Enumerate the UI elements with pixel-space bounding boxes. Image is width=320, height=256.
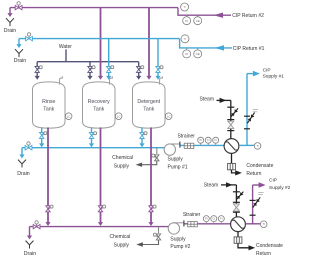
svg-text:CIP Return #1: CIP Return #1 [233,46,265,52]
angle valve riser #1 [247,113,254,124]
drain funnel 4 [26,241,34,249]
svg-text:TI: TI [184,37,187,41]
note riser #2 [258,191,263,193]
instrument PI supply #2 [203,216,209,222]
svg-text:Supply: Supply [114,164,130,170]
svg-text:Chemical: Chemical [112,155,133,161]
wire purple suction header [30,226,169,228]
svg-text:Return: Return [246,171,261,177]
valve purple outlet V-P3 [149,205,156,212]
angle valve riser #2 [253,197,260,207]
wire chemical supply #1 [140,161,157,165]
arrow purple outlet 2 [98,222,103,226]
arrow condensate return #2 [249,245,256,250]
steam trap #2 [234,237,242,243]
valve drain CV1 [26,33,33,41]
flange pump #2 discharge [183,220,185,226]
wire cyan outlet tank 1 [41,127,43,132]
wire chemical supply #2 [141,240,159,245]
wire purple drop to recovery tank [100,8,102,77]
svg-text:FI: FI [185,52,188,56]
arrow CIP supply #2 [259,182,266,188]
wire purple outlet tank 1 [47,127,49,205]
pump P2 supply pump #2 [168,223,184,234]
instrument TI supply #1 [254,143,261,150]
svg-text:FI: FI [215,138,218,142]
valve water inlet V-W2 [88,66,95,73]
instrument TI return #2 [181,3,189,11]
flange pump #1 discharge [179,142,181,148]
wire steam #2 drop [235,185,237,217]
svg-text:CIP Return #2: CIP Return #2 [232,13,264,19]
pump P1 supply pump #1 [164,144,180,155]
wire CIP return #2 header [10,7,178,9]
tank T3 Detergent Tank [133,82,166,128]
svg-text:Drain: Drain [17,171,30,177]
arrow water into tank 3 [136,76,141,80]
valve cyan inlet V-C1 [107,66,114,73]
wire condensate #1 [231,153,233,163]
flange steam #2 a [233,191,240,193]
svg-text:Detergent: Detergent [137,99,160,105]
valve drain PV1 [15,2,22,10]
wire purple drop to detergent tank [148,8,150,77]
svg-text:Rinse: Rinse [42,99,55,105]
wire water header [37,61,139,63]
isolation valve steam #1 [231,108,238,117]
wire drain drop cyan [18,39,20,45]
heat exchanger HX1 [224,139,239,154]
wire CIP supply #2 connector [253,184,259,186]
control valve steam #2 [233,204,239,211]
arrow cyan outlet 2 [89,143,94,147]
drain funnel 2 [15,49,23,57]
instrument TI supply #2 [260,221,267,228]
arrow to drain [16,44,21,48]
svg-text:Recovery: Recovery [88,99,110,105]
arrow cyan outlet 1 [39,143,44,147]
svg-text:Steam: Steam [200,96,214,102]
wire CIP supply #1 riser [246,74,248,146]
instrument FI return #2 [183,17,191,25]
svg-text:CE: CE [196,19,200,23]
arrow cyan into tank 2 [106,76,111,80]
svg-text:CI: CI [213,217,216,221]
arrow purple outlet 3 [148,222,153,226]
arrow to drain [19,155,24,159]
svg-text:Chemical: Chemical [109,234,130,240]
wire cyan outlet tank 2 [91,127,93,132]
tank T2 Recovery Tank [83,82,116,128]
wire HX2 outlet [245,223,260,225]
valve purple outlet V-P1 [46,205,53,212]
strainer S1 [184,143,194,148]
flange steam #2 c [233,211,240,213]
wire cyan drop 1 [108,39,110,67]
wire to CIP return #1 connector [180,39,232,48]
flange riser #2 lower [250,214,256,216]
valve drain CV2 [25,142,32,150]
isolation valve steam #2 [236,192,243,200]
svg-text:Return: Return [256,251,271,256]
svg-text:CIP: CIP [263,68,271,74]
svg-text:Condensate: Condensate [256,243,283,249]
arrow CIP return #2 [214,13,224,18]
svg-text:CIP: CIP [269,178,277,184]
arrow purple outlet 1 [45,222,50,226]
svg-text:Supply #2: Supply #2 [269,185,291,191]
heat exchanger HX2 [231,217,246,232]
svg-text:CI: CI [207,138,210,142]
wire CIP supply #2 riser [252,185,254,224]
arrow water into tank 1 [35,76,40,80]
control valve steam #1 [228,121,234,128]
strainer S2 [188,222,198,227]
wire drain drop [29,227,31,236]
flange steam #1 a [227,106,234,108]
instrument PI supply #1 [198,137,204,143]
wire steam #1 drop [230,100,232,138]
svg-text:Tank: Tank [93,107,104,113]
svg-text:TI: TI [183,5,186,9]
svg-text:Supply: Supply [114,243,130,249]
svg-text:Supply: Supply [170,236,186,242]
svg-text:Supply #1: Supply #1 [263,73,285,79]
wire condensate #2 [237,232,239,237]
valve cyan inlet V-C2 [156,66,163,73]
wire water drop 3 [138,62,140,67]
svg-text:Condensate: Condensate [246,163,273,169]
wire water drop 2 [89,62,91,67]
wire purple outlet tank 2 [100,127,102,205]
svg-text:FI: FI [185,19,188,23]
tank T1 Rinse Tank [33,82,66,128]
wire drain drop [21,148,23,155]
arrow steam #1 [220,98,227,103]
wire to CIP return #2 connector [178,8,231,16]
wire steam #1 [217,99,231,101]
svg-text:Supply: Supply [168,157,184,163]
svg-text:TI: TI [263,222,266,226]
valve cyan outlet V-O3 [140,132,147,139]
wire pump #2 discharge [184,223,230,225]
svg-text:Drain: Drain [4,28,17,34]
wire drain drop purple [9,8,11,14]
arrow CIP supply #1 [253,71,260,77]
svg-text:Strainer: Strainer [177,133,195,139]
arrow purple into recovery tank [98,76,103,80]
arrow water into tank 2 [87,76,92,80]
valve water inlet V-W3 [137,66,144,73]
wire condensate #2 out [238,243,250,248]
arrow chemical supply #2 [136,242,143,246]
wire chemical supply #1 stub [156,148,158,154]
valve chemical supply #1 [152,154,159,161]
flange riser #1 upper [244,128,250,130]
svg-text:Tank: Tank [143,107,154,113]
valve chemical supply #2 [153,233,160,240]
instrument CE return #1 [194,50,202,58]
flange steam #1 b [227,119,234,121]
svg-text:CE: CE [196,52,200,56]
instrument FI supply #2 [218,216,224,222]
instrument CI supply #1 [205,137,211,143]
drain funnel 1 [6,18,14,26]
wire cyan drop 2 [157,39,159,67]
drain funnel 3 [18,160,26,168]
wire water drop 1 [36,62,38,67]
svg-text:PI: PI [205,217,208,221]
arrow cyan outlet 3 [139,143,144,147]
svg-text:PI: PI [199,138,202,142]
valve water inlet V-W1 [35,66,42,73]
flange riser #2 upper [250,199,256,201]
arrow chemical supply #1 [136,163,143,167]
arrow cyan into tank 3 [155,76,160,80]
wire CIP supply #1 connector [247,73,253,75]
arrow purple into detergent tank [146,76,151,80]
svg-text:TI: TI [256,144,259,148]
svg-text:Water: Water [59,44,72,50]
instrument CE return #2 [194,17,202,25]
wire cyan suction header [22,147,164,149]
arrow steam #2 [226,182,233,187]
flange steam #2 b [233,201,240,203]
svg-text:Steam: Steam [204,183,218,189]
arrow to drain [27,236,32,240]
arrow CIP return #1 [215,45,225,50]
valve purple outlet V-P2 [98,205,105,212]
wire cyan outlet tank 3 [141,127,143,132]
wire water supply stub [65,49,67,61]
instrument FI supply #1 [213,137,219,143]
svg-text:Pump #2: Pump #2 [170,244,190,250]
wire purple outlet tank 3 [150,127,152,205]
wire HX1 outlet [239,144,255,146]
arrow to drain [7,13,12,17]
flange steam #1 c [227,130,234,132]
wire condensate #1 out [232,170,237,173]
wire CIP return #1 header [19,38,180,40]
arrow condensate return #1 [235,170,242,175]
svg-text:Drain: Drain [14,58,27,64]
valve cyan outlet V-O2 [89,132,96,139]
wire pump #1 discharge [180,144,224,146]
instrument CI supply #2 [211,216,217,222]
svg-text:Tank: Tank [43,107,54,113]
wire chemical supply #2 stub [158,227,160,234]
svg-text:Strainer: Strainer [183,212,201,218]
steam trap #1 [228,163,236,169]
flange riser #1 lower [244,115,250,117]
instrument TI return #1 [181,35,189,43]
note riser #1 [253,109,258,111]
svg-text:FI: FI [220,217,223,221]
valve cyan outlet V-O1 [40,132,47,139]
svg-text:Drain: Drain [24,251,37,256]
valve drain PV2 [33,221,40,229]
wire steam #2 [221,184,236,186]
instrument FI return #1 [183,50,191,58]
svg-text:Pump #1: Pump #1 [168,165,188,171]
